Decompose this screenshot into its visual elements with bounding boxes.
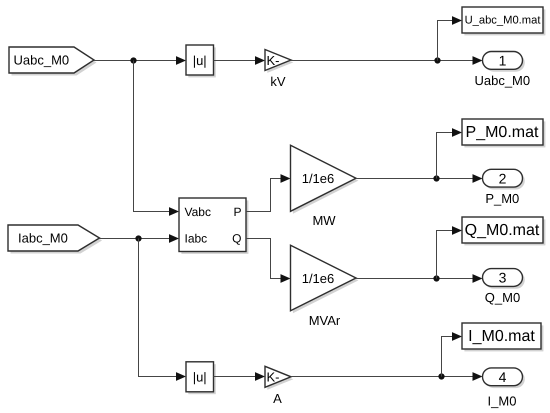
power measurement block U2 — [179, 198, 248, 254]
svg-text:A: A — [273, 391, 282, 406]
svg-text:Uabc_M0: Uabc_M0 — [14, 53, 70, 68]
outport 3 — [483, 269, 525, 305]
wire |u| to gain A — [214, 372, 266, 381]
svg-text:Iabc_M0: Iabc_M0 — [18, 231, 68, 246]
inport Iabc_M0 — [8, 225, 102, 254]
svg-text:P_M0.mat: P_M0.mat — [466, 124, 539, 141]
svg-text:Q_M0: Q_M0 — [485, 290, 520, 305]
wire Iabc_M0 to power block — [100, 234, 180, 243]
svg-text:|u|: |u| — [193, 370, 207, 385]
svg-text:K-: K- — [267, 370, 280, 385]
abs block |u| U1 — [186, 45, 216, 77]
svg-text:I_M0: I_M0 — [488, 394, 517, 409]
wire gain kV to outport 1 — [291, 56, 483, 65]
wire J3 down to abs A — [139, 239, 187, 381]
node junction J5 — [433, 275, 439, 281]
svg-text:P_M0: P_M0 — [485, 191, 519, 206]
svg-text:1/1e6: 1/1e6 — [302, 271, 335, 286]
svg-text:P: P — [233, 205, 241, 219]
wire Uabc_M0 to |u| — [94, 56, 186, 65]
wire gain A to outport 4 — [291, 372, 483, 381]
outport 1 — [474, 52, 530, 89]
svg-text:Q: Q — [232, 231, 241, 245]
svg-text:kV: kV — [270, 74, 286, 89]
svg-text:|u|: |u| — [193, 53, 207, 68]
outport 2 — [483, 169, 525, 206]
wire J4 up to P_M0.mat — [437, 128, 463, 178]
svg-text:MVAr: MVAr — [309, 313, 341, 328]
wire MVAr to outport 3 — [356, 274, 483, 283]
wire J6 up to I_M0.mat — [442, 332, 463, 376]
inport Uabc_M0 — [9, 47, 97, 76]
svg-text:3: 3 — [499, 270, 507, 286]
node junction J6 — [438, 373, 444, 379]
svg-text:I_M0.mat: I_M0.mat — [468, 328, 535, 345]
svg-text:U_abc_M0.mat: U_abc_M0.mat — [465, 14, 542, 26]
to-file U_abc_M0.mat — [462, 7, 545, 35]
node junction J2 — [434, 57, 440, 63]
svg-text:Uabc_M0: Uabc_M0 — [474, 73, 530, 88]
wire P output to gain MW — [246, 174, 291, 211]
node junction J4 — [433, 175, 439, 181]
wire J2 up to U_abc_M0.mat — [438, 16, 463, 60]
node junction J3 — [135, 235, 141, 241]
gain MW 1/1e6 — [291, 145, 359, 228]
outport 4 — [483, 368, 525, 409]
svg-text:K-: K- — [267, 53, 280, 68]
wire |u| to gain kV — [214, 56, 266, 65]
wire J1 down to Vabc input — [134, 61, 180, 216]
node junction J1 — [130, 57, 136, 63]
svg-text:2: 2 — [499, 170, 507, 186]
wire J5 up to Q_M0.mat — [437, 226, 463, 278]
svg-text:1/1e6: 1/1e6 — [302, 171, 335, 186]
svg-text:Q_M0.mat: Q_M0.mat — [465, 222, 540, 239]
to-file Q_M0.mat — [462, 217, 545, 245]
svg-text:Iabc: Iabc — [185, 231, 208, 245]
svg-text:4: 4 — [499, 369, 507, 385]
svg-text:1: 1 — [499, 53, 507, 69]
to-file I_M0.mat — [462, 323, 543, 351]
gain kV (K-) — [265, 50, 293, 90]
wire Q output to gain MVAr — [246, 239, 291, 283]
wire MW to outport 2 — [356, 174, 483, 183]
svg-text:MW: MW — [312, 213, 336, 228]
gain A (K-) — [265, 366, 293, 406]
svg-text:Vabc: Vabc — [185, 205, 211, 219]
to-file P_M0.mat — [462, 119, 545, 147]
gain MVAr 1/1e6 — [291, 245, 359, 328]
abs block |u| U3 — [186, 362, 216, 394]
